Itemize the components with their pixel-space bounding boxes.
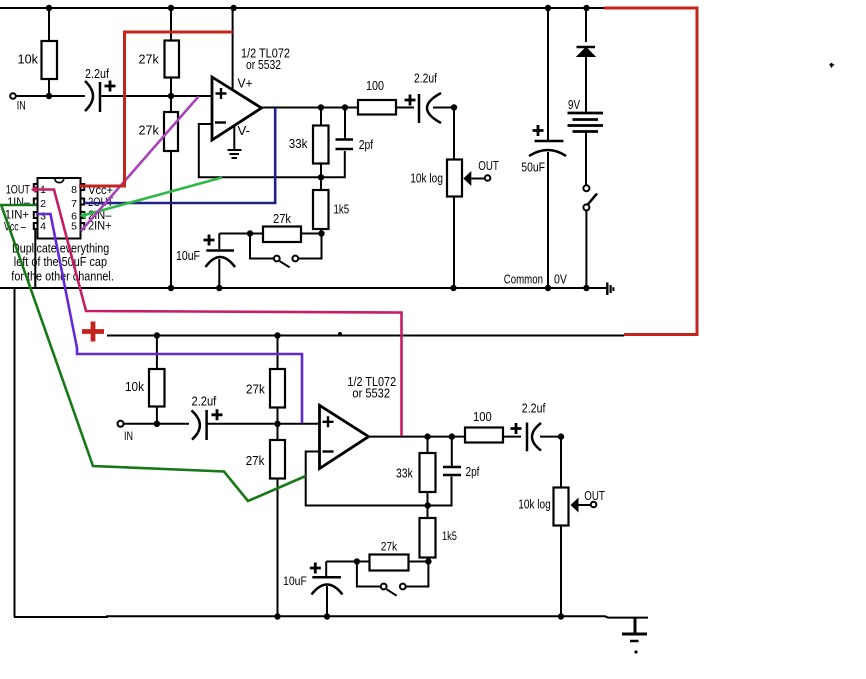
svg-text:2.2uf: 2.2uf <box>192 394 217 409</box>
svg-text:2IN+: 2IN+ <box>88 220 111 232</box>
svg-text:27k: 27k <box>139 122 160 137</box>
svg-text:Common: Common <box>504 273 543 286</box>
svg-text:10k: 10k <box>18 51 39 66</box>
svg-text:50uF: 50uF <box>521 160 545 174</box>
svg-text:4: 4 <box>40 221 46 233</box>
svg-text:33k: 33k <box>396 466 413 480</box>
svg-text:or 5532: or 5532 <box>246 58 281 72</box>
svg-text:or 5532: or 5532 <box>352 386 390 401</box>
svg-text:2pf: 2pf <box>359 138 374 152</box>
svg-text:10k: 10k <box>125 379 145 394</box>
svg-text:10k log: 10k log <box>518 497 550 512</box>
svg-text:7: 7 <box>71 198 77 210</box>
svg-text:27k: 27k <box>381 541 398 554</box>
svg-text:9V: 9V <box>568 99 580 112</box>
svg-text:100: 100 <box>473 409 492 424</box>
svg-text:V-: V- <box>238 123 250 138</box>
svg-text:27k: 27k <box>273 211 292 226</box>
svg-text:2pf: 2pf <box>466 465 481 480</box>
svg-text:OUT: OUT <box>478 160 499 174</box>
svg-text:10uF: 10uF <box>283 575 307 588</box>
svg-text:100: 100 <box>366 78 384 93</box>
svg-text:2.2uf: 2.2uf <box>414 71 438 85</box>
svg-text:V+: V+ <box>238 76 253 90</box>
svg-text:33k: 33k <box>289 136 308 151</box>
svg-text:1IN+: 1IN+ <box>5 209 30 221</box>
svg-text:1k5: 1k5 <box>442 530 457 543</box>
svg-text:IN: IN <box>17 99 26 113</box>
svg-text:10uF: 10uF <box>176 248 200 263</box>
svg-text:8: 8 <box>71 184 77 196</box>
svg-text:27k: 27k <box>246 453 265 468</box>
svg-text:1OUT: 1OUT <box>6 184 31 196</box>
svg-text:5: 5 <box>71 221 77 233</box>
svg-text:1IN–: 1IN– <box>7 197 30 209</box>
svg-text:27k: 27k <box>246 382 266 397</box>
svg-text:27k: 27k <box>139 51 160 66</box>
svg-text:IN: IN <box>124 430 133 444</box>
svg-text:OUT: OUT <box>584 490 605 504</box>
svg-text:1k5: 1k5 <box>334 203 350 217</box>
svg-text:2.2uf: 2.2uf <box>522 400 546 415</box>
svg-text:10k log: 10k log <box>410 171 443 185</box>
svg-text:0V: 0V <box>554 273 567 287</box>
svg-text:2: 2 <box>40 198 46 210</box>
svg-text:2.2uf: 2.2uf <box>85 66 110 81</box>
